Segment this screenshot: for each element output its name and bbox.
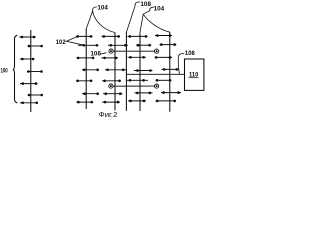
leader 104-right curve to line E — [143, 14, 170, 32]
brace for group 100 — [13, 35, 18, 103]
contact (circled dot) lower-left — [109, 84, 113, 88]
word line row 3 on line B with cell dots — [101, 57, 118, 60]
word line row 1 on line E with cell dots — [155, 34, 172, 37]
vertical bit line E of pair 104 (right) — [169, 32, 171, 112]
word line row 1, column 100, with cell dots — [19, 36, 36, 39]
label 104 (left pair) with hook — [93, 4, 109, 11]
word line row 6 on line B with cell dots — [103, 92, 123, 95]
word line row 5 on line A with cell dots — [76, 80, 92, 83]
word line row 2, column 100, with cell dots — [28, 45, 43, 48]
svg-text:104: 104 — [154, 6, 165, 13]
word line row 7 on line E with cell dots — [156, 100, 177, 103]
label 108 (top) with hook — [127, 1, 152, 32]
word line row 6, column 100, with cell dots — [28, 94, 43, 97]
word line row 2 on line D with cell dots — [136, 44, 151, 47]
word line row 5 on line E with cell dots — [156, 79, 172, 82]
svg-text:104: 104 — [97, 4, 108, 11]
word line row 3 on line D with cell dots — [128, 56, 146, 59]
word line row 3, column 100, with cell dots — [20, 58, 35, 61]
word line row 5, column 100, with cell dots — [20, 82, 38, 85]
word line row 6 on line D with cell dots — [135, 92, 153, 95]
vertical bit line B of pair 104 (left) — [114, 32, 116, 110]
word line row 7 on line D with cell dots — [128, 100, 146, 103]
word line row 4 on line A with cell dots — [82, 69, 99, 72]
leader 104-left to line A — [86, 11, 92, 29]
svg-text:108: 108 — [185, 50, 195, 57]
leader 104-right to line D — [140, 14, 144, 34]
word line row 2 on line E with cell dots — [160, 43, 177, 46]
svg-text:102: 102 — [56, 39, 66, 46]
wire: lower connector — [113, 85, 155, 87]
wire 108 from line C to block 110 — [126, 73, 184, 75]
svg-text:106: 106 — [90, 50, 101, 57]
word line row 4 on line E with cell dots — [162, 68, 179, 71]
word line row 1 on line A with cell dots — [76, 35, 92, 38]
label 106 with dash leader — [90, 50, 106, 57]
svg-text:100: 100 — [1, 67, 8, 74]
wire: upper connector 106 — [113, 50, 155, 52]
word line row 4 on line D with cell dots — [134, 69, 152, 72]
contact (circled dot) lower-right — [155, 84, 159, 88]
word line row 2 on line A with cell dots — [78, 44, 99, 47]
label 104 (right pair) with hook — [143, 6, 164, 15]
vertical bit line, column 100 — [30, 30, 32, 112]
word line row 1 on line B with cell dots — [102, 35, 121, 38]
label 108 (right) with hook leader to wire — [178, 50, 195, 74]
word line row 1 on line D with cell dots — [128, 35, 148, 38]
leader 104-left curve to line B — [93, 11, 115, 33]
vertical line 108 (bit line C) — [125, 32, 127, 111]
label 102 with leader lines to cells — [56, 37, 84, 46]
word line row 3 on line A with cell dots — [76, 57, 94, 60]
block 110 — [185, 59, 204, 90]
label 110 underlined — [189, 71, 199, 78]
word line row 6 on line A with cell dots — [82, 92, 99, 95]
caption Фиг.2 — [99, 110, 118, 119]
word line row 5 on line B with cell dots — [102, 80, 121, 83]
word line row 3 on line E with cell dots — [155, 56, 173, 59]
word line row 4, column 100, with cell dots — [27, 70, 43, 73]
word line row 6 on line E with cell dots — [161, 91, 181, 94]
svg-text:108: 108 — [140, 1, 151, 8]
word line row 5 on line D with cell dots — [127, 79, 148, 82]
word line row 7, column 100, with cell dots — [20, 102, 38, 105]
vertical bit line A of pair 104 (left) — [85, 29, 87, 110]
vertical bit line D of pair 104 (right) — [139, 34, 141, 111]
contact (circled dot) upper-left — [109, 49, 113, 53]
svg-text:Фиг.2: Фиг.2 — [99, 110, 118, 119]
word line row 7 on line B with cell dots — [102, 101, 120, 104]
word line row 7 on line A with cell dots — [76, 101, 93, 104]
word line row 2 on line B with cell dots — [108, 44, 128, 47]
contact (circled dot) upper-right — [155, 49, 159, 53]
word line row 4 on line B with cell dots — [105, 69, 126, 72]
label 100 — [1, 67, 8, 74]
